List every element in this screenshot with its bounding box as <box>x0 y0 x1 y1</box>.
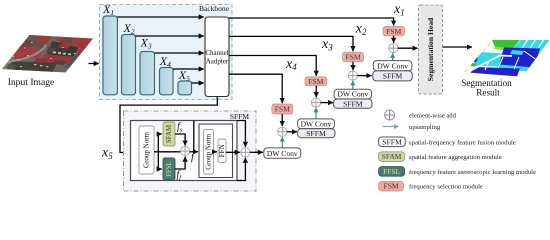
svg-text:SFFM: SFFM <box>383 72 403 81</box>
input image photo <box>0 30 100 78</box>
svg-text:upsampling: upsampling <box>409 124 441 131</box>
svg-text:spatial-frequency feature fusi: spatial-frequency feature fusion module <box>409 139 516 146</box>
svg-text:SFFM: SFFM <box>382 137 402 146</box>
wire X4 to adapter <box>173 68 204 70</box>
wire x3 from adapter <box>229 56 316 76</box>
svg-text:x2: x2 <box>355 22 367 37</box>
wire mid to addS1 <box>154 151 180 153</box>
wire add1 to seg head <box>398 47 418 49</box>
svg-text:Aadpter: Aadpter <box>206 58 229 66</box>
svg-text:SFAM: SFAM <box>166 125 173 143</box>
upsample wire stack1 to add1 <box>392 53 394 60</box>
wire add3 to stack2 <box>321 102 334 104</box>
wire X3 to adapter <box>155 52 204 54</box>
svg-text:FFSL: FFSL <box>383 167 400 176</box>
legend FSM <box>379 181 404 191</box>
segmentation result map <box>458 38 550 78</box>
svg-text:DW Conv: DW Conv <box>267 149 298 158</box>
svg-text:DW Conv: DW Conv <box>377 61 408 70</box>
wire x5 from adapter to SFFM module <box>120 97 217 153</box>
legend add <box>385 110 395 120</box>
wire addS1 to block2 with residual branch up <box>190 151 198 153</box>
FSM box level2 <box>343 52 364 62</box>
legend SFAM <box>379 152 405 162</box>
wire GN2 to FFN <box>214 151 218 153</box>
add node S1 <box>181 147 190 156</box>
residual bottom into addS2 <box>237 158 245 181</box>
legend upsampling <box>383 126 399 128</box>
add node level1 <box>389 44 398 53</box>
svg-text:Segmentation Head: Segmentation Head <box>426 17 435 81</box>
svg-text:frequency selection module: frequency selection module <box>409 184 483 191</box>
legend SFFM <box>379 137 406 147</box>
wire split to FFSL <box>158 152 162 169</box>
SFAM out wire <box>175 134 185 146</box>
svg-text:DW Conv: DW Conv <box>301 119 332 128</box>
upsample wire DW5 to add4 <box>281 137 283 148</box>
wire x1 from adapter <box>229 18 394 26</box>
svg-text:Group Norm: Group Norm <box>143 131 151 168</box>
svg-text:Result: Result <box>476 87 500 97</box>
wire FSM4 to add4 <box>281 114 283 126</box>
svg-text:FFSL: FFSL <box>166 161 173 177</box>
svg-text:FSM: FSM <box>386 27 401 36</box>
wire FSM1 to add1 <box>393 36 395 43</box>
SFFM module dashed box <box>124 111 257 191</box>
svg-text:DW Conv: DW Conv <box>337 90 368 99</box>
wire X2 to adapter <box>136 35 204 37</box>
bar X5 <box>178 81 192 95</box>
svg-text:FSM: FSM <box>345 53 360 62</box>
svg-text:SFFM: SFFM <box>230 112 250 121</box>
backbone dashed box <box>100 5 233 100</box>
segmentation head box <box>419 5 443 94</box>
FSM box level3 <box>305 77 327 86</box>
wire X1 to adapter <box>117 16 203 18</box>
stack1 SFFM <box>373 71 412 81</box>
wire FSM3 to add3 <box>315 86 317 97</box>
wire seg head to result <box>443 46 473 48</box>
wire FSM2 to add2 <box>352 62 354 70</box>
svg-text:frequency feature stereoscopic: frequency feature stereoscopic learning … <box>409 169 536 176</box>
SFAM box <box>163 122 175 146</box>
stack3 DW Conv <box>298 119 335 129</box>
channel adapter box <box>205 17 229 97</box>
svg-text:x1: x1 <box>393 2 405 17</box>
FSM box level1 <box>383 27 405 36</box>
svg-text:SFFM: SFFM <box>306 129 326 138</box>
svg-text:Backbone: Backbone <box>199 4 230 13</box>
wire add4 to stack3 <box>287 131 297 133</box>
wire input to backbone <box>89 63 99 65</box>
svg-text:x3: x3 <box>321 37 333 52</box>
stack2 DW Conv <box>334 89 372 99</box>
bar X2 <box>122 35 136 95</box>
svg-text:SFAM: SFAM <box>382 152 402 161</box>
FFSL out wire <box>175 157 185 169</box>
DW Conv level5 <box>264 148 301 158</box>
wire x2 from adapter <box>229 36 353 51</box>
bar X1 <box>103 16 117 95</box>
stack3 SFFM <box>298 129 335 138</box>
svg-text:spatial feature aggregation mo: spatial feature aggregation module <box>409 154 502 161</box>
svg-text:X1: X1 <box>102 2 114 17</box>
svg-text:SFFM: SFFM <box>343 99 363 108</box>
svg-text:Group Norm: Group Norm <box>205 133 213 170</box>
group norm 1 <box>139 126 154 174</box>
wire add2 to stack1 <box>357 75 371 77</box>
SFFM inner solid box <box>131 121 238 181</box>
FFSL box <box>163 158 175 180</box>
stack1 DW Conv <box>373 61 412 71</box>
svg-text:FSM: FSM <box>308 77 323 86</box>
svg-text:Channel: Channel <box>205 49 228 57</box>
group norm 2 <box>204 130 214 175</box>
svg-text:element-wise add: element-wise add <box>409 113 457 120</box>
FSM box level4 <box>272 104 293 114</box>
upsample wire stack2 to add2 <box>352 81 354 89</box>
svg-text:FSM: FSM <box>275 105 290 114</box>
add node level3 <box>311 98 320 107</box>
svg-text:x5: x5 <box>101 146 113 161</box>
svg-text:Input Image: Input Image <box>8 77 55 88</box>
svg-text:x4: x4 <box>285 57 297 72</box>
wire x4 from adapter <box>229 74 282 103</box>
legend FFSL <box>379 167 405 177</box>
stack2 SFFM <box>334 99 372 108</box>
FFN box <box>218 139 226 163</box>
upsample wire stack3 to add3 <box>315 108 317 119</box>
wire split to SFAM <box>158 134 162 152</box>
wire addS2 to DW5 <box>250 151 263 153</box>
wire FFN to addS2 <box>226 151 240 153</box>
bar X4 <box>160 68 174 95</box>
svg-text:FFN: FFN <box>218 144 226 157</box>
add node level4 <box>278 127 287 136</box>
wire X5 to adapter <box>192 82 204 84</box>
residual top into addS2 <box>237 121 245 147</box>
add node S2 <box>241 148 250 157</box>
inner block2 rect <box>199 124 233 178</box>
svg-text:FSM: FSM <box>383 182 398 191</box>
residual branch up <box>193 121 195 152</box>
bar X3 <box>140 52 155 95</box>
add node level2 <box>348 71 357 80</box>
